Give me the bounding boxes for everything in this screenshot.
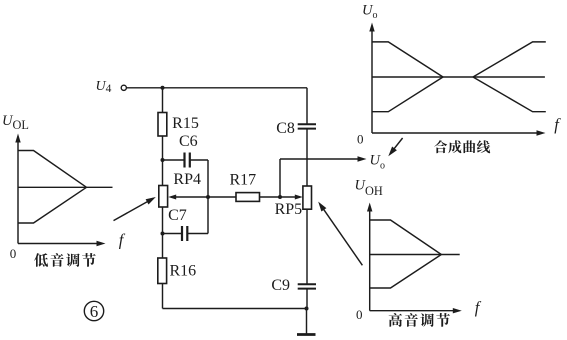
svg-text:0: 0 (357, 132, 364, 147)
svg-text:6: 6 (90, 302, 99, 321)
svg-text:C6: C6 (179, 133, 198, 150)
svg-text:0: 0 (10, 246, 17, 261)
svg-text:C8: C8 (276, 120, 295, 137)
svg-text:R15: R15 (172, 115, 199, 132)
svg-text:R16: R16 (169, 262, 196, 279)
svg-text:C9: C9 (271, 277, 290, 294)
svg-text:R17: R17 (229, 172, 256, 189)
svg-text:RP5: RP5 (275, 201, 303, 218)
svg-text:RP4: RP4 (173, 171, 201, 188)
svg-text:0: 0 (356, 307, 363, 322)
svg-text:C7: C7 (168, 207, 187, 224)
